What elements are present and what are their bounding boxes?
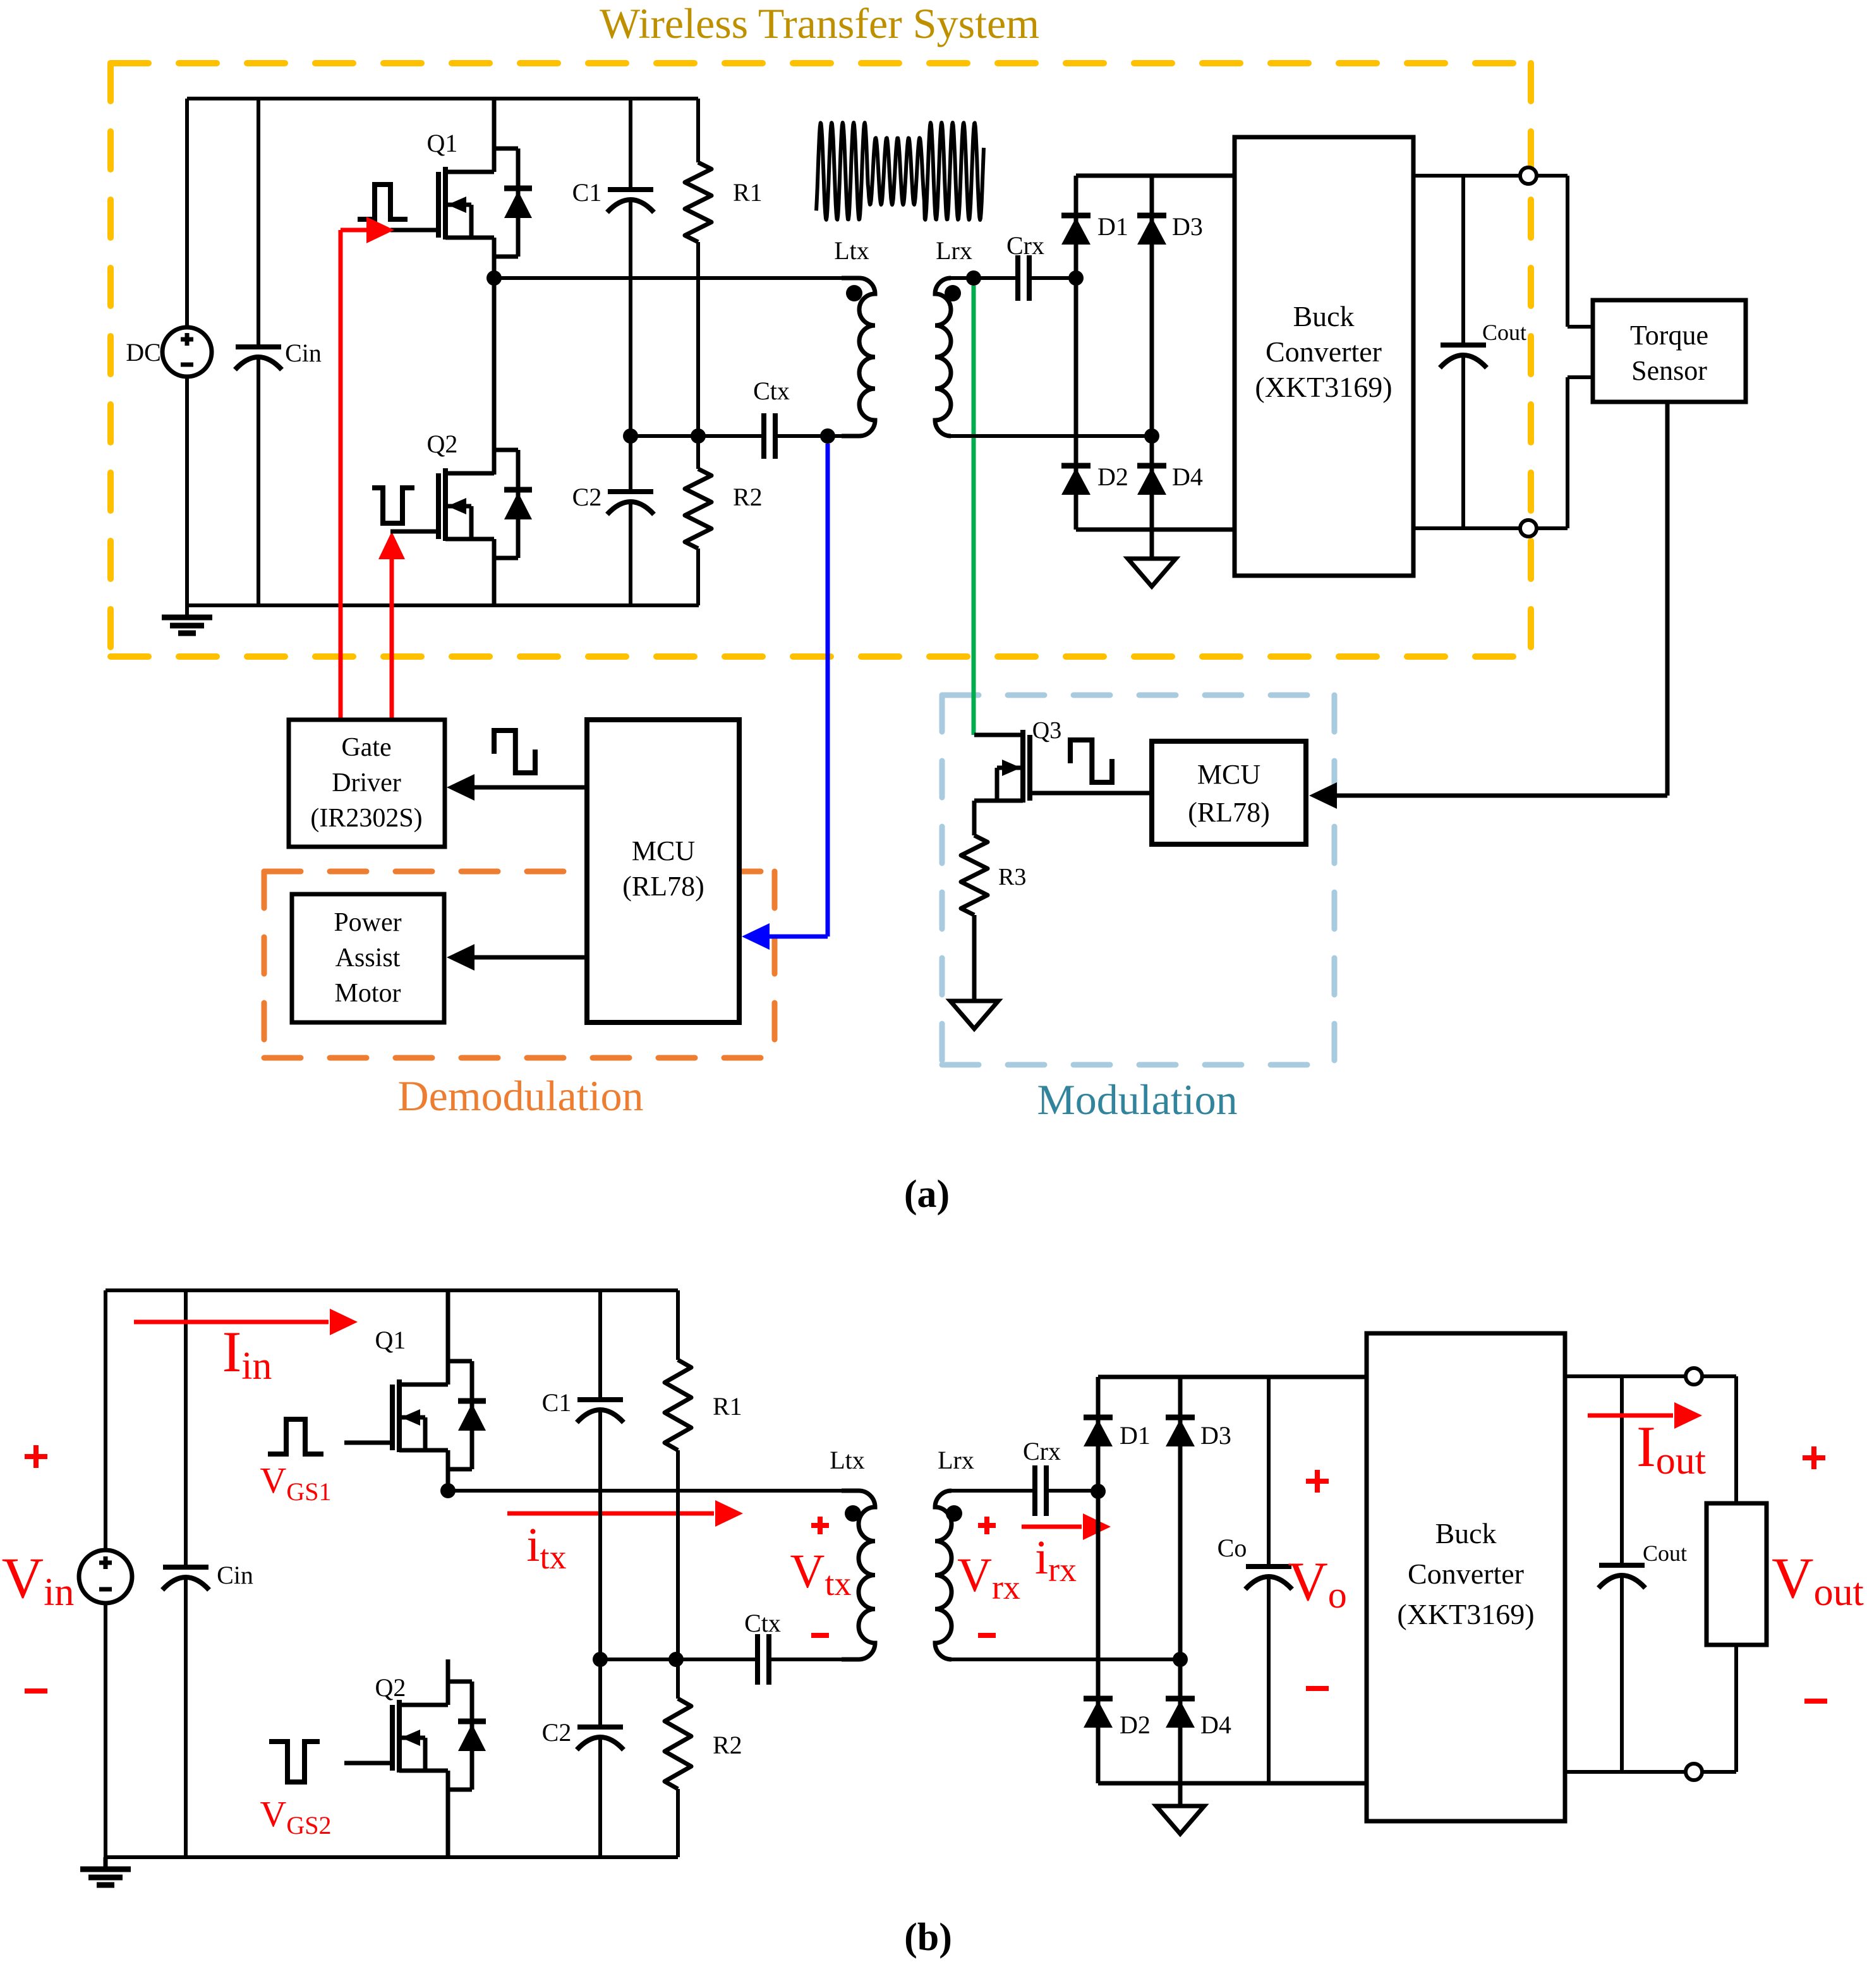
- svg-text:MCU: MCU: [1197, 759, 1260, 790]
- svg-text:R1: R1: [733, 178, 763, 207]
- svg-text:Modulation: Modulation: [1037, 1076, 1237, 1124]
- svg-text:Sensor: Sensor: [1631, 355, 1707, 386]
- svg-text:C1: C1: [542, 1388, 572, 1417]
- svg-text:Power: Power: [334, 908, 401, 937]
- svg-text:D2: D2: [1097, 463, 1128, 491]
- svg-text:(RL78): (RL78): [1188, 797, 1270, 828]
- svg-text:D1: D1: [1097, 212, 1128, 241]
- svg-text:C2: C2: [542, 1718, 572, 1747]
- svg-text:Ctx: Ctx: [744, 1609, 781, 1637]
- svg-text:Q3: Q3: [1032, 717, 1061, 744]
- svg-text:D1: D1: [1120, 1421, 1151, 1450]
- svg-text:R2: R2: [733, 483, 763, 511]
- svg-text:Cout: Cout: [1643, 1541, 1687, 1566]
- svg-text:DC: DC: [126, 338, 161, 367]
- svg-text:D4: D4: [1172, 463, 1203, 491]
- svg-text:D2: D2: [1120, 1711, 1151, 1739]
- svg-text:Ltx: Ltx: [830, 1446, 865, 1474]
- svg-text:Demodulation: Demodulation: [397, 1072, 643, 1120]
- svg-text:Cout: Cout: [1482, 320, 1526, 345]
- svg-text:Gate: Gate: [341, 733, 391, 762]
- svg-text:Buck: Buck: [1435, 1517, 1496, 1549]
- svg-text:Converter: Converter: [1266, 336, 1382, 368]
- svg-text:Driver: Driver: [332, 768, 401, 797]
- svg-text:Q2: Q2: [427, 430, 458, 458]
- svg-text:R2: R2: [713, 1731, 742, 1759]
- svg-text:Crx: Crx: [1006, 231, 1044, 260]
- svg-text:(XKT3169): (XKT3169): [1397, 1598, 1534, 1630]
- svg-text:Crx: Crx: [1023, 1437, 1061, 1465]
- svg-text:(IR2302S): (IR2302S): [310, 804, 422, 833]
- svg-text:Converter: Converter: [1408, 1558, 1524, 1590]
- svg-text:Buck: Buck: [1293, 300, 1354, 332]
- svg-text:(RL78): (RL78): [622, 871, 704, 902]
- svg-text:D3: D3: [1200, 1421, 1231, 1450]
- svg-text:Q1: Q1: [427, 129, 458, 157]
- svg-text:Q1: Q1: [375, 1326, 406, 1354]
- svg-text:Assist: Assist: [335, 943, 401, 973]
- svg-text:Q2: Q2: [375, 1673, 406, 1702]
- svg-text:(XKT3169): (XKT3169): [1255, 371, 1392, 403]
- svg-text:Ltx: Ltx: [834, 236, 869, 265]
- svg-text:Lrx: Lrx: [938, 1446, 974, 1474]
- svg-text:C1: C1: [572, 178, 602, 207]
- svg-text:C2: C2: [572, 483, 602, 511]
- svg-text:D3: D3: [1172, 212, 1203, 241]
- svg-text:MCU: MCU: [632, 835, 695, 866]
- svg-text:Ctx: Ctx: [753, 377, 790, 405]
- svg-text:Co: Co: [1217, 1534, 1247, 1562]
- svg-text:Cin: Cin: [217, 1561, 253, 1589]
- svg-text:Motor: Motor: [335, 979, 401, 1008]
- svg-text:Cin: Cin: [285, 339, 322, 367]
- svg-text:Wireless Transfer System: Wireless Transfer System: [600, 0, 1039, 47]
- svg-text:Lrx: Lrx: [936, 236, 972, 265]
- svg-text:Torque: Torque: [1630, 320, 1708, 351]
- svg-text:D4: D4: [1200, 1711, 1231, 1739]
- svg-text:R1: R1: [713, 1392, 742, 1421]
- svg-text:(a): (a): [904, 1173, 950, 1216]
- svg-text:(b): (b): [904, 1916, 952, 1959]
- svg-text:R3: R3: [998, 864, 1026, 890]
